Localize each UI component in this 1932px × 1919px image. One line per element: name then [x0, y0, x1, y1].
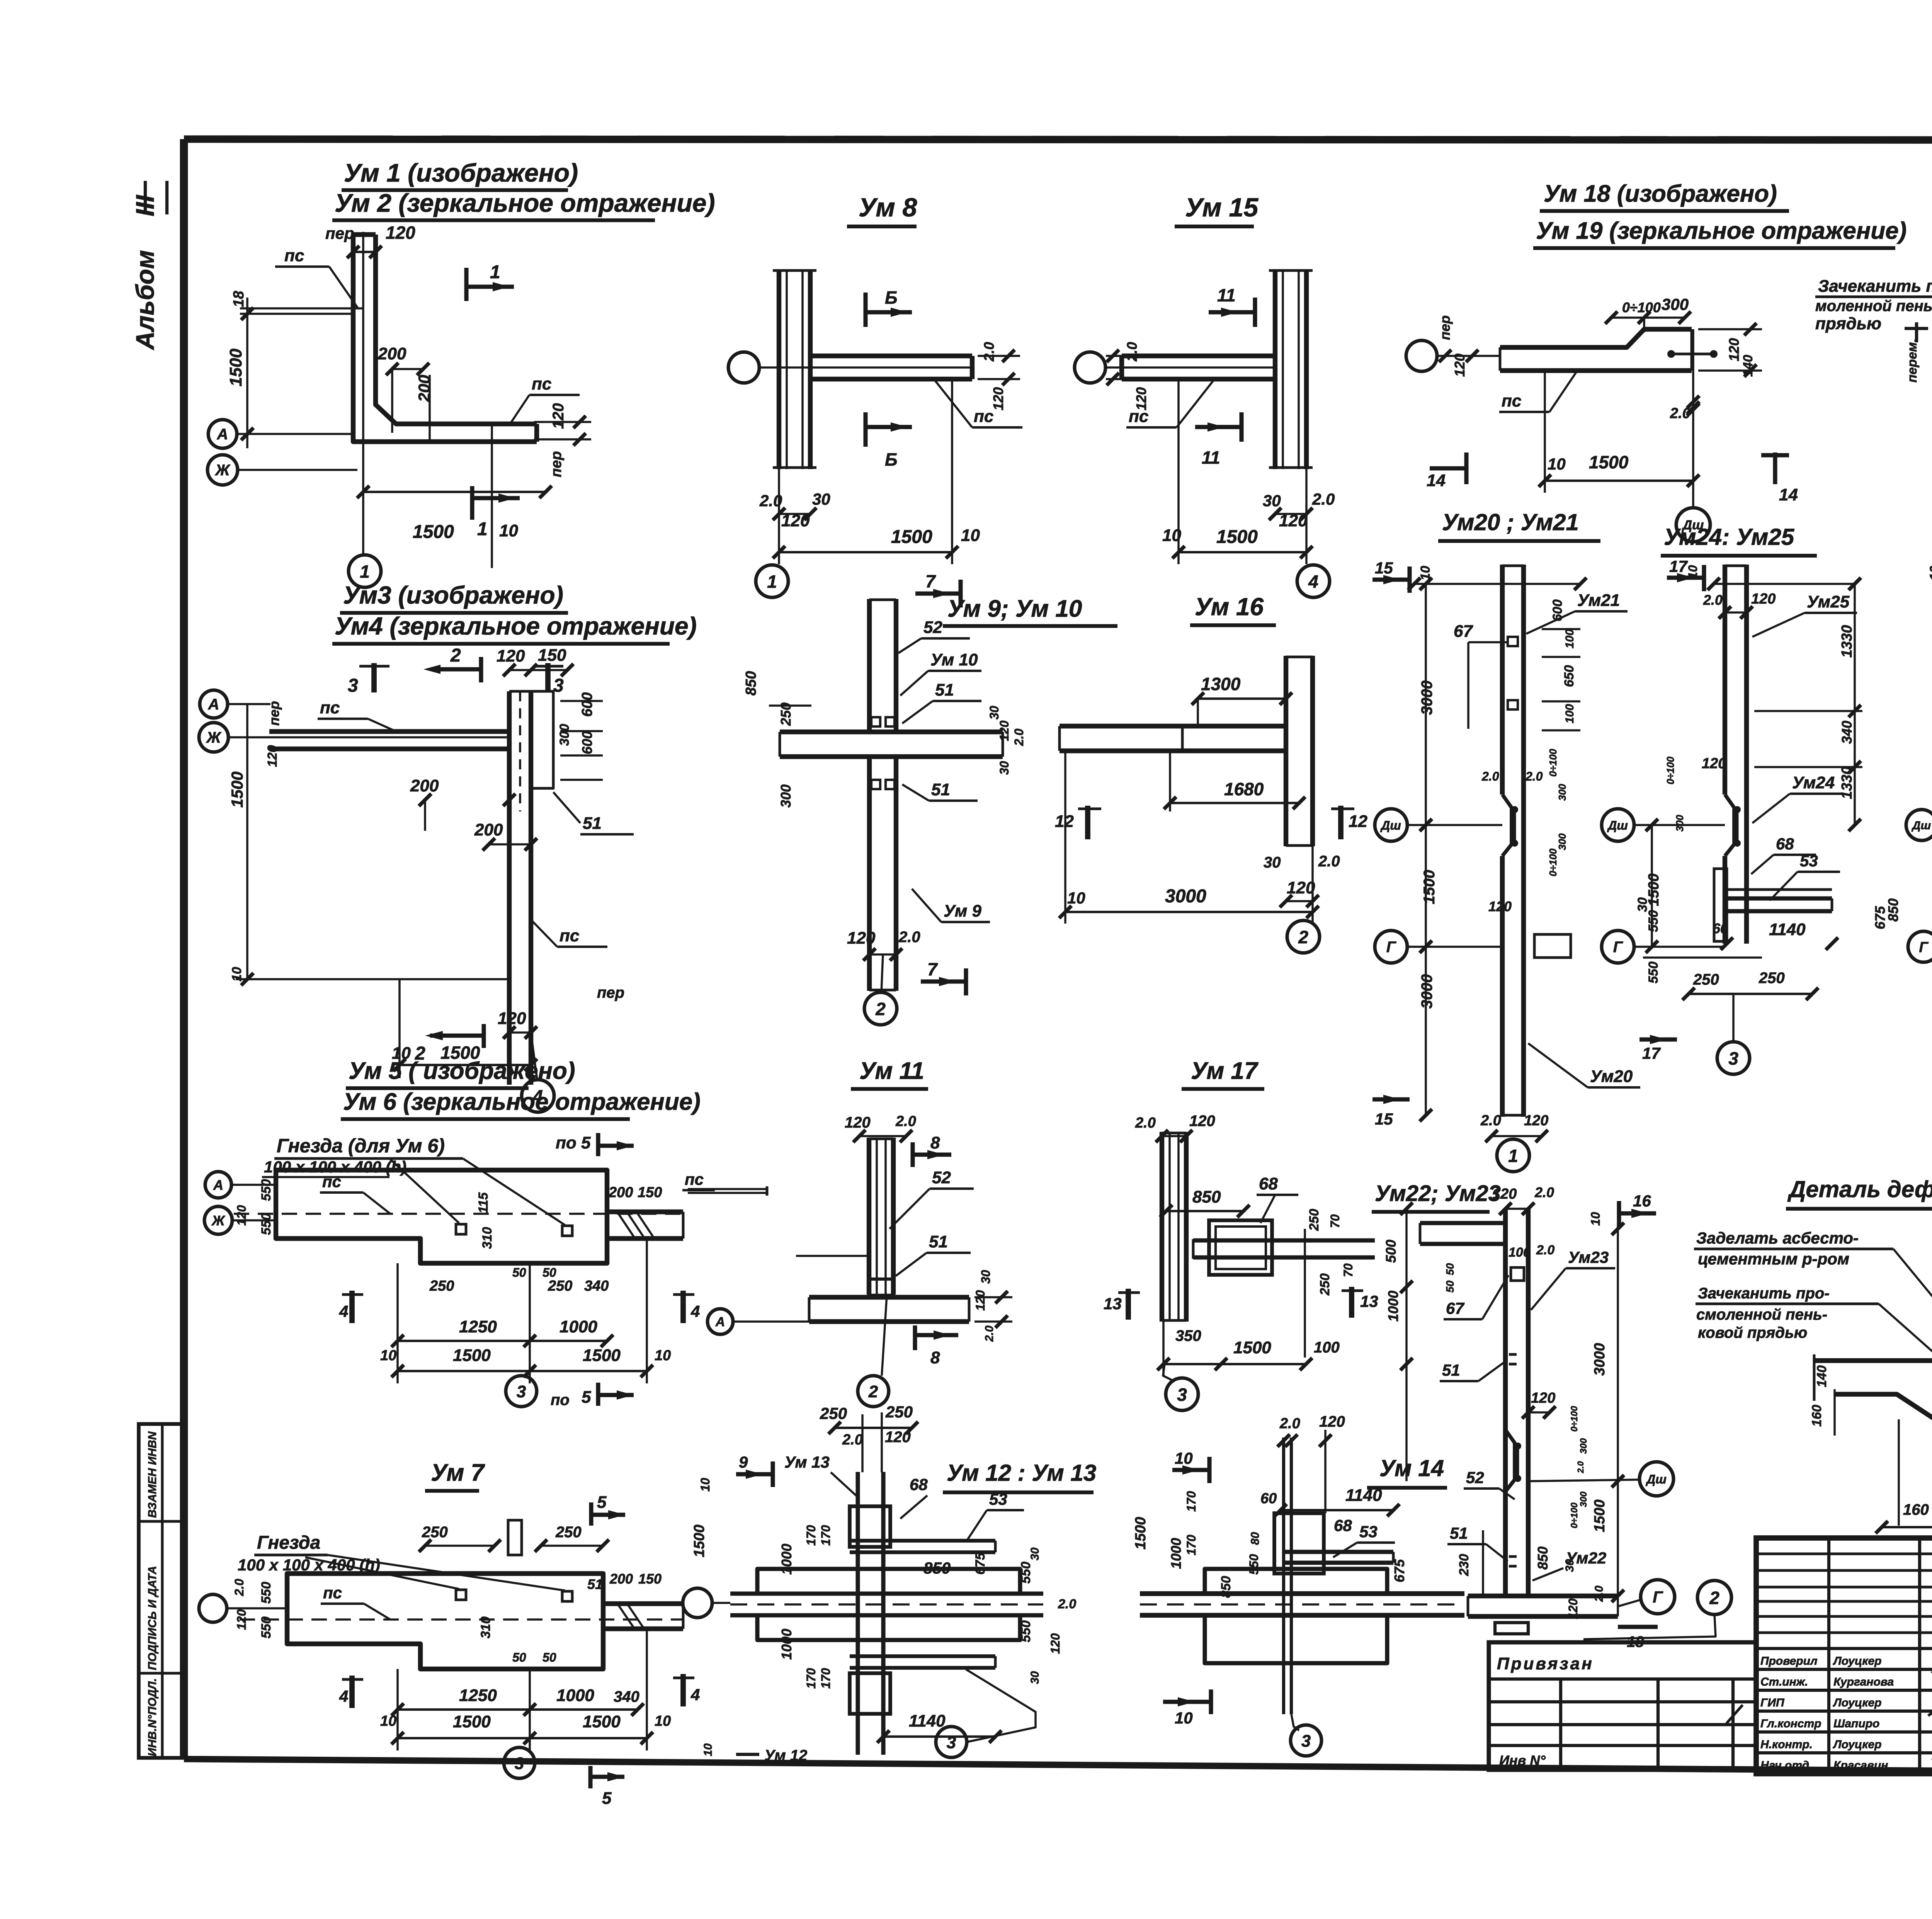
- svg-text:Ум24: Ум25: Ум24: Ум25: [1664, 524, 1795, 550]
- svg-text:1: 1: [360, 561, 370, 582]
- svg-text:1330: 1330: [1839, 625, 1855, 658]
- detail Um7 centerline dashed: [240, 1618, 683, 1621]
- svg-text:пс: пс: [560, 926, 579, 945]
- svg-text:120: 120: [1531, 1390, 1555, 1406]
- detail seam-in-bottom bottom dim line: [1882, 1526, 1932, 1528]
- svg-text:115: 115: [476, 1192, 491, 1213]
- svg-text:200: 200: [609, 1571, 633, 1587]
- svg-text:1: 1: [477, 519, 488, 539]
- svg-text:850: 850: [1219, 1576, 1233, 1598]
- svg-text:10: 10: [380, 1713, 396, 1729]
- detail Um17 block inner: [1216, 1227, 1266, 1269]
- svg-text:120: 120: [973, 1290, 987, 1311]
- svg-text:120: 120: [990, 387, 1006, 410]
- svg-text:310: 310: [480, 1227, 495, 1249]
- svg-text:перем.: перем.: [1905, 339, 1920, 383]
- svg-text:70: 70: [1328, 1214, 1342, 1228]
- svg-text:2.0: 2.0: [842, 1432, 863, 1448]
- detail Um22/Um23 anchor square: [1511, 1267, 1524, 1281]
- title block name rows: [1756, 1647, 1932, 1650]
- detail Um12/Um13 bar lower: [850, 1654, 995, 1658]
- detail Um18/Um19 axis circle left: [1406, 340, 1437, 371]
- svg-text:2.0: 2.0: [1124, 342, 1140, 362]
- svg-text:300: 300: [1556, 833, 1568, 850]
- detail Um14 slab band: [1140, 1591, 1464, 1596]
- svg-text:Г: Г: [1386, 939, 1397, 956]
- svg-text:3: 3: [517, 1382, 526, 1401]
- svg-text:Ж: Ж: [211, 1213, 225, 1228]
- detail Um17 section 13 right: [1349, 1287, 1354, 1318]
- detail Um1/Um2 axis circle 1: [349, 555, 381, 587]
- svg-text:5: 5: [602, 1789, 612, 1808]
- svg-text:30: 30: [1563, 1559, 1576, 1572]
- svg-text:Ум4 (зеркальное отражение): Ум4 (зеркальное отражение): [335, 612, 697, 640]
- detail Um22/Um23 section 16 top: [1619, 1211, 1656, 1215]
- svg-text:Ум 14: Ум 14: [1379, 1455, 1444, 1481]
- detail Um9/Um10 anchor squares lower: [871, 780, 880, 789]
- svg-text:53: 53: [1800, 852, 1818, 870]
- svg-text:1500: 1500: [226, 349, 245, 386]
- svg-text:Лоуцкер: Лоуцкер: [1833, 1655, 1881, 1667]
- svg-text:170: 170: [1184, 1535, 1198, 1555]
- svg-text:0÷100: 0÷100: [1569, 1406, 1580, 1432]
- detail Um3/Um4 section 2 bottom: [430, 1033, 484, 1038]
- detail Um18/Um19 wall with jog: [1500, 329, 1692, 347]
- svg-text:7: 7: [925, 571, 936, 591]
- detail Um8 section Б top: [863, 293, 867, 327]
- svg-text:30: 30: [987, 706, 1001, 720]
- svg-text:Гнезда: Гнезда: [257, 1533, 320, 1553]
- svg-text:50: 50: [1444, 1263, 1456, 1275]
- detail Um7 section 4 right: [680, 1674, 686, 1706]
- detail Um7 socket leaders: [305, 1557, 459, 1589]
- detail Um11 wall bottom end box: [869, 1279, 893, 1295]
- svg-text:пс: пс: [685, 1170, 704, 1188]
- detail Um8 vertical wall: [777, 269, 781, 469]
- detail Um22/Um23 joint dots: [1514, 1443, 1521, 1449]
- svg-text:550: 550: [1019, 1620, 1033, 1642]
- detail Um24/Um25 wall strip vertical: [1723, 565, 1727, 794]
- svg-text:Ум 9: Ум 9: [944, 902, 981, 920]
- svg-text:Ум 1 (изображено): Ум 1 (изображено): [344, 158, 578, 187]
- svg-text:пс: пс: [284, 246, 304, 265]
- svg-text:ковой прядью: ковой прядью: [1698, 1324, 1807, 1341]
- svg-text:51: 51: [935, 680, 954, 699]
- axis circle Дш column 1: [1375, 809, 1407, 841]
- svg-text:67: 67: [1454, 622, 1473, 641]
- svg-text:250: 250: [422, 1524, 448, 1541]
- margin stamp strip divider vertical: [161, 1424, 164, 1758]
- detail Um20/Um21 wall strip vertical: [1500, 565, 1505, 794]
- svg-text:550: 550: [1019, 1562, 1033, 1584]
- svg-text:2: 2: [875, 999, 886, 1019]
- detail Um24/Um25 formwork post: [1714, 869, 1727, 941]
- detail Um9/Um10 axis circle 2: [864, 992, 897, 1025]
- svg-text:500: 500: [1383, 1240, 1399, 1263]
- svg-text:Гл.констр: Гл.констр: [1760, 1717, 1821, 1730]
- svg-text:1: 1: [490, 262, 500, 282]
- svg-text:10: 10: [1927, 566, 1932, 580]
- svg-text:120: 120: [1319, 1413, 1345, 1430]
- svg-text:200: 200: [608, 1184, 633, 1201]
- detail Um1/Um2 wall corner outline: [353, 235, 537, 442]
- svg-text:2.0: 2.0: [1135, 1115, 1156, 1131]
- detail Um16 horizontal wall: [1060, 724, 1286, 728]
- detail Um8 axis circle left: [728, 352, 759, 383]
- svg-text:1140: 1140: [1769, 920, 1806, 939]
- svg-text:2.0: 2.0: [898, 929, 920, 946]
- svg-text:1500: 1500: [1589, 452, 1629, 472]
- svg-text:850: 850: [743, 671, 759, 696]
- svg-text:52: 52: [923, 618, 942, 637]
- svg-text:3000: 3000: [1418, 680, 1435, 715]
- svg-text:Курганова: Курганова: [1833, 1676, 1894, 1688]
- svg-text:170: 170: [819, 1668, 833, 1689]
- svg-text:1500: 1500: [583, 1346, 621, 1365]
- svg-text:17: 17: [1669, 557, 1688, 575]
- svg-text:4: 4: [1308, 572, 1318, 592]
- svg-text:4: 4: [690, 1302, 700, 1320]
- svg-text:170: 170: [1184, 1491, 1198, 1512]
- detail Um17 axis circle 3: [1166, 1378, 1198, 1410]
- svg-text:550: 550: [1646, 910, 1661, 932]
- svg-text:850: 850: [1535, 1546, 1551, 1570]
- detail Um17 vertical wall: [1160, 1132, 1164, 1322]
- svg-text:Ст.инж.: Ст.инж.: [1760, 1676, 1808, 1688]
- detail Um11 vertical wall: [867, 1138, 871, 1295]
- svg-text:68: 68: [1259, 1174, 1278, 1193]
- detail Um7 standing formwork piece: [508, 1520, 522, 1555]
- svg-text:68: 68: [910, 1475, 928, 1494]
- detail Um22/Um23 bottom small element: [1495, 1623, 1528, 1634]
- svg-text:2: 2: [1709, 1588, 1719, 1608]
- left attachment table diagonal: [1726, 1705, 1743, 1723]
- detail Um5/Um6 section 4 right: [680, 1291, 686, 1323]
- detail Um3/Um4 vertical wall: [507, 691, 512, 1085]
- svg-text:Лоуцкер: Лоуцкер: [1833, 1696, 1881, 1709]
- svg-text:30: 30: [997, 761, 1011, 775]
- svg-text:пс: пс: [322, 1172, 341, 1191]
- detail Um14 section 10 left: [1172, 1468, 1209, 1472]
- detail Um3/Um4 horizontal wall: [269, 729, 509, 734]
- svg-text:10: 10: [499, 521, 518, 540]
- detail Um14 slab lower rect: [1205, 1615, 1387, 1663]
- svg-text:2.0: 2.0: [1703, 592, 1723, 608]
- detail Um5/Um6 axis circle А: [205, 1172, 231, 1198]
- detail Um9/Um10 anchor squares upper: [871, 717, 880, 726]
- svg-text:3000: 3000: [1418, 974, 1435, 1009]
- svg-text:Ум 13: Ум 13: [784, 1453, 830, 1471]
- svg-text:12: 12: [1349, 812, 1367, 831]
- svg-text:2.0: 2.0: [1312, 490, 1335, 508]
- svg-text:16: 16: [1633, 1192, 1651, 1210]
- svg-text:пс: пс: [320, 698, 340, 717]
- detail seam-in-bottom left end caps: [1813, 1354, 1816, 1401]
- svg-text:пер: пер: [1437, 315, 1453, 340]
- svg-text:по: по: [551, 1392, 570, 1409]
- detail Um1/Um2 grid axis line vertical: [362, 232, 364, 556]
- svg-text:675: 675: [1391, 1559, 1407, 1582]
- svg-text:А: А: [217, 426, 228, 443]
- svg-text:Деталь деформационного шва: Деталь деформационного шва в днище: [1787, 1176, 1932, 1202]
- detail Um24/Um25 axis circle 3: [1717, 1042, 1750, 1074]
- detail Um14 formwork box: [1274, 1513, 1324, 1574]
- svg-text:30: 30: [1029, 1671, 1041, 1684]
- svg-text:пс: пс: [323, 1584, 342, 1602]
- detail Um20/Um21 section 15 bottom: [1372, 1097, 1410, 1101]
- detail Um5/Um6 axis circle Ж: [204, 1206, 232, 1234]
- detail Um18/Um19 joint dots: [1667, 350, 1675, 358]
- detail seam-in-bottom зачеканить leader: [1879, 1304, 1932, 1407]
- svg-text:3: 3: [1177, 1385, 1187, 1405]
- detail Um1/Um2 axis circle А: [208, 420, 237, 448]
- svg-text:51: 51: [583, 814, 602, 833]
- detail Um16 section 12 right: [1338, 806, 1344, 839]
- left attachment table rows: [1489, 1677, 1756, 1681]
- svg-text:300: 300: [1578, 1491, 1589, 1507]
- svg-text:13: 13: [1360, 1292, 1378, 1310]
- svg-text:120: 120: [550, 403, 567, 429]
- svg-text:10: 10: [1175, 1449, 1193, 1467]
- svg-text:1000: 1000: [1385, 1291, 1401, 1322]
- detail Um9/Um10 cross walls vertical upper: [867, 599, 872, 732]
- detail Um15 horizontal wall: [1122, 354, 1275, 358]
- sheet frame bottom border: [184, 1759, 1932, 1774]
- svg-text:0÷100: 0÷100: [1547, 749, 1559, 777]
- svg-text:2.0: 2.0: [1593, 1586, 1605, 1602]
- detail Um16 section 12 left: [1085, 806, 1090, 839]
- detail Um7 axis circle 3: [504, 1747, 535, 1778]
- margin strip row line 2: [139, 1672, 184, 1675]
- svg-text:2.0: 2.0: [1058, 1597, 1076, 1611]
- svg-text:Ум21: Ум21: [1577, 591, 1620, 610]
- svg-text:340: 340: [584, 1278, 609, 1294]
- detail Um20/Um21 joint dots: [1511, 806, 1518, 813]
- svg-text:850: 850: [1885, 898, 1901, 922]
- svg-text:310: 310: [478, 1616, 493, 1638]
- detail seam-in-bottom заделать leader: [1893, 1249, 1932, 1376]
- svg-text:5: 5: [582, 1388, 591, 1407]
- svg-text:Ум 12 : Ум 13: Ум 12 : Ум 13: [947, 1460, 1096, 1486]
- svg-text:30: 30: [979, 1270, 993, 1284]
- svg-text:Г: Г: [1613, 939, 1624, 956]
- svg-text:350: 350: [1175, 1327, 1201, 1344]
- detail Um1/Um2 dim line 1500 left: [240, 307, 363, 310]
- svg-text:250: 250: [1693, 971, 1719, 988]
- detail Um11 left extension lines from Um5 wall: [688, 1188, 767, 1190]
- svg-text:600: 600: [1550, 599, 1565, 621]
- svg-text:300: 300: [778, 784, 794, 808]
- svg-text:4: 4: [690, 1686, 700, 1704]
- detail Um12/Um13 slab band lower: [757, 1615, 1020, 1640]
- svg-text:Ум25: Ум25: [1807, 592, 1850, 611]
- detail Um3/Um4 axis circle 4: [522, 1080, 554, 1112]
- svg-text:Ж: Ж: [214, 462, 230, 479]
- detail Um22/Um23 axis circle 2: [1697, 1580, 1731, 1614]
- sheet frame left border: [180, 139, 188, 1759]
- svg-text:52: 52: [932, 1168, 951, 1187]
- svg-text:250: 250: [1318, 1273, 1332, 1296]
- detail Um22/Um23 section 18 bottom: [1618, 1625, 1658, 1629]
- svg-text:300: 300: [1674, 815, 1685, 832]
- svg-text:140: 140: [1815, 1365, 1829, 1387]
- svg-text:прядью: прядью: [1815, 314, 1881, 333]
- svg-text:650: 650: [1562, 665, 1577, 687]
- svg-text:смоленной пень-: смоленной пень-: [1696, 1306, 1827, 1323]
- detail Um22/Um23 bottom wall: [1468, 1594, 1618, 1598]
- svg-text:Ум 17: Ум 17: [1191, 1058, 1259, 1084]
- svg-text:10: 10: [655, 1713, 671, 1729]
- svg-text:200: 200: [474, 820, 503, 839]
- svg-text:Г: Г: [1919, 939, 1929, 956]
- detail Um12/Um13 axis circle left: [683, 1588, 712, 1618]
- svg-text:30: 30: [1029, 1547, 1041, 1560]
- detail Um24/Um25 section 17 top: [1667, 575, 1704, 580]
- svg-text:300: 300: [1556, 784, 1568, 801]
- svg-text:1300: 1300: [1201, 674, 1241, 694]
- svg-text:10: 10: [1175, 1709, 1193, 1727]
- svg-text:120: 120: [847, 929, 876, 948]
- detail Um1/Um2 axis circle Ж: [207, 455, 238, 485]
- detail Um22/Um23 axis circle Дш: [1639, 1462, 1673, 1496]
- svg-text:Зачеканить прос-: Зачеканить прос-: [1818, 277, 1932, 296]
- svg-text:170: 170: [804, 1525, 818, 1546]
- svg-text:600: 600: [579, 731, 595, 754]
- detail Um15 vertical wall: [1273, 269, 1277, 469]
- left attachment table verticals: [1559, 1679, 1562, 1770]
- detail Um15 axis circle left: [1075, 352, 1105, 383]
- svg-text:7: 7: [927, 959, 938, 979]
- detail Um3/Um4 right pilaster outline: [531, 691, 553, 788]
- detail Um5/Um6 centerline dashed: [234, 1213, 683, 1215]
- title block outer box: [1756, 1538, 1932, 1774]
- svg-text:100: 100: [1509, 1245, 1531, 1260]
- detail Um11 section 8 top: [913, 1152, 951, 1157]
- detail Um7 socket squares: [456, 1590, 466, 1600]
- svg-text:Ж: Ж: [206, 729, 221, 746]
- detail Um3/Um4 axis circle А: [200, 690, 228, 718]
- detail Um12/Um13 formwork box upper: [850, 1506, 890, 1547]
- svg-text:Ум 9; Ум 10: Ум 9; Ум 10: [947, 595, 1082, 622]
- svg-text:Г: Г: [1653, 1588, 1663, 1606]
- detail seam-in-bottom slab bottom profile: [1835, 1394, 1932, 1421]
- svg-text:170: 170: [819, 1525, 833, 1546]
- svg-text:550: 550: [259, 1213, 274, 1235]
- detail Um12/Um13 axis circle 3: [936, 1727, 967, 1757]
- svg-text:1500: 1500: [1133, 1517, 1149, 1550]
- svg-text:1250: 1250: [459, 1686, 497, 1705]
- svg-text:А: А: [208, 696, 219, 713]
- svg-text:160: 160: [1903, 1501, 1929, 1518]
- svg-text:1500: 1500: [1233, 1338, 1271, 1357]
- svg-text:300: 300: [1578, 1438, 1589, 1454]
- svg-text:10: 10: [961, 526, 980, 545]
- svg-text:15: 15: [1375, 1110, 1393, 1128]
- svg-text:1500: 1500: [583, 1712, 621, 1731]
- svg-text:850: 850: [923, 1559, 951, 1577]
- detail Um3/Um4 section 3 right: [545, 663, 551, 692]
- svg-text:3000: 3000: [1592, 1343, 1608, 1376]
- detail Um5/Um6 axis circle 3: [506, 1376, 537, 1407]
- svg-text:Ум20 ; Ум21: Ум20 ; Ум21: [1442, 509, 1579, 535]
- svg-text:250: 250: [1307, 1209, 1321, 1231]
- svg-text:Ум22; Ум23: Ум22; Ум23: [1375, 1181, 1501, 1206]
- svg-text:0÷100: 0÷100: [1665, 756, 1676, 784]
- svg-text:1500: 1500: [453, 1346, 491, 1365]
- svg-text:0÷100: 0÷100: [1622, 299, 1661, 315]
- svg-text:50: 50: [1444, 1280, 1456, 1293]
- svg-text:3: 3: [947, 1733, 956, 1752]
- svg-text:8: 8: [930, 1348, 940, 1367]
- svg-text:1500: 1500: [1646, 873, 1662, 906]
- svg-text:340: 340: [1839, 721, 1855, 744]
- detail Um17 section 13 left: [1126, 1289, 1131, 1320]
- svg-text:3000: 3000: [1165, 886, 1206, 907]
- svg-text:3: 3: [348, 675, 358, 696]
- detail Um22/Um23 jog: [1505, 1430, 1515, 1492]
- svg-text:4: 4: [339, 1302, 348, 1320]
- svg-text:30: 30: [812, 490, 830, 508]
- detail Um5/Um6 socket squares: [456, 1224, 466, 1234]
- detail Um18/Um19 section 14 left: [1430, 466, 1466, 470]
- detail Um14 slab upper rect: [1205, 1569, 1387, 1594]
- detail Um12/Um13 formwork box lower: [850, 1673, 890, 1714]
- detail Um3/Um4 axis circle Ж: [199, 723, 228, 752]
- svg-text:10: 10: [702, 1743, 714, 1756]
- svg-text:100: 100: [1314, 1339, 1340, 1356]
- detail Um8 axis circle 1: [756, 565, 788, 597]
- svg-text:10: 10: [1686, 565, 1700, 579]
- svg-text:Ум 6 (зеркальное отражение): Ум 6 (зеркальное отражение): [343, 1089, 701, 1115]
- svg-text:моленной пеньковой: моленной пеньковой: [1815, 298, 1932, 315]
- svg-text:Н.контр.: Н.контр.: [1760, 1738, 1813, 1751]
- svg-text:150: 150: [638, 1184, 662, 1201]
- detail Um17 block outer: [1209, 1220, 1272, 1275]
- detail Um12/Um13 slab band upper: [757, 1569, 1020, 1594]
- detail Um24/Um25 section 17 bottom: [1639, 1037, 1677, 1041]
- detail Um24/Um25 slab bar horizontal: [1723, 896, 1832, 900]
- detail Um14 section 10 bottom: [1163, 1700, 1211, 1704]
- svg-text:340: 340: [614, 1688, 639, 1705]
- svg-text:2.0: 2.0: [1012, 728, 1026, 746]
- detail Um5/Um6 right wall extension: [607, 1210, 683, 1214]
- svg-text:0÷100: 0÷100: [1569, 1502, 1580, 1528]
- svg-text:250: 250: [820, 1404, 847, 1422]
- svg-text:9: 9: [739, 1453, 748, 1471]
- svg-text:2.0: 2.0: [981, 342, 997, 362]
- svg-text:по 5: по 5: [556, 1133, 591, 1152]
- svg-text:120: 120: [1048, 1633, 1062, 1654]
- svg-text:Нач.отд: Нач.отд: [1760, 1759, 1809, 1772]
- svg-text:150: 150: [538, 646, 566, 665]
- svg-text:Б: Б: [885, 288, 898, 308]
- detail Um8 horizontal wall: [810, 354, 972, 358]
- detail Um18/Um19 joint axis vertical: [1692, 329, 1694, 508]
- axis circle Г column 2: [1602, 931, 1634, 963]
- detail Um1/Um2 section mark 1 bottom: [470, 486, 474, 520]
- detail seam-in-bottom slab top line: [1814, 1358, 1932, 1363]
- svg-text:А: А: [715, 1315, 725, 1329]
- svg-text:200: 200: [410, 776, 439, 795]
- svg-text:1000: 1000: [556, 1686, 594, 1705]
- svg-text:120: 120: [498, 1009, 526, 1028]
- svg-text:пс: пс: [532, 374, 551, 393]
- svg-text:1500: 1500: [413, 522, 454, 542]
- detail Um12/Um13 vertical wall: [855, 1472, 860, 1755]
- svg-text:150: 150: [638, 1571, 662, 1587]
- svg-text:120: 120: [845, 1114, 871, 1131]
- svg-text:51: 51: [1442, 1361, 1460, 1379]
